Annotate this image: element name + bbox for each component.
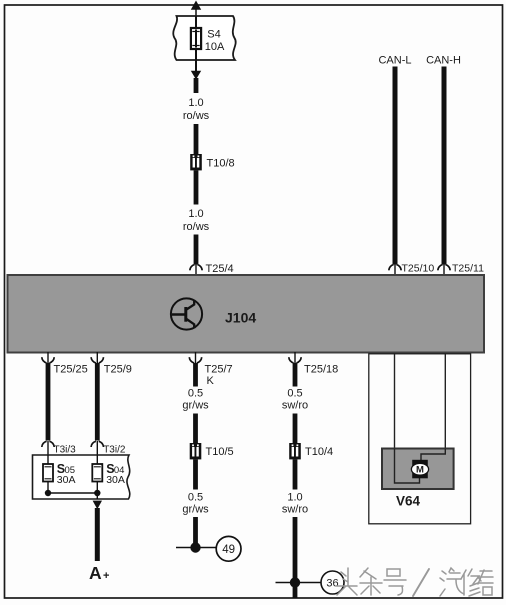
svg-text:36: 36 bbox=[326, 578, 338, 590]
svg-text:T25/7: T25/7 bbox=[205, 364, 233, 376]
svg-text:T25/25: T25/25 bbox=[54, 364, 88, 376]
svg-text:T10/5: T10/5 bbox=[206, 446, 234, 458]
svg-text:gr/ws: gr/ws bbox=[182, 504, 209, 516]
svg-text:1.0: 1.0 bbox=[287, 492, 302, 504]
svg-text:sw/ro: sw/ro bbox=[282, 504, 308, 516]
svg-text:T25/11: T25/11 bbox=[452, 263, 484, 275]
svg-text:1.0: 1.0 bbox=[188, 208, 203, 220]
svg-text:T25/9: T25/9 bbox=[104, 364, 132, 376]
svg-text:0.5: 0.5 bbox=[287, 388, 302, 400]
svg-text:T3i/2: T3i/2 bbox=[103, 445, 126, 456]
svg-text:49: 49 bbox=[222, 544, 235, 556]
svg-text:T25/10: T25/10 bbox=[402, 263, 435, 275]
svg-text:V64: V64 bbox=[396, 494, 421, 509]
svg-text:gr/ws: gr/ws bbox=[182, 400, 209, 412]
svg-text:0.5: 0.5 bbox=[188, 492, 203, 504]
svg-text:30A: 30A bbox=[57, 474, 76, 486]
svg-text:M: M bbox=[416, 465, 424, 476]
svg-text:S4: S4 bbox=[207, 29, 220, 41]
svg-text:T25/18: T25/18 bbox=[304, 364, 338, 376]
svg-text:sw/ro: sw/ro bbox=[282, 400, 308, 412]
svg-text:ro/ws: ro/ws bbox=[183, 110, 210, 122]
svg-text:K: K bbox=[207, 375, 215, 387]
svg-text:CAN-H: CAN-H bbox=[426, 55, 461, 67]
svg-text:T10/4: T10/4 bbox=[305, 446, 333, 458]
svg-text:T3i/3: T3i/3 bbox=[54, 445, 77, 456]
svg-text:1.0: 1.0 bbox=[188, 97, 203, 109]
svg-text:10A: 10A bbox=[205, 41, 225, 53]
svg-text:ro/ws: ro/ws bbox=[183, 221, 210, 233]
svg-text:J104: J104 bbox=[225, 310, 256, 326]
svg-text:0.5: 0.5 bbox=[188, 388, 203, 400]
svg-text:30A: 30A bbox=[106, 474, 125, 486]
svg-text:+: + bbox=[103, 570, 109, 582]
svg-text:CAN-L: CAN-L bbox=[378, 55, 411, 67]
svg-text:T25/4: T25/4 bbox=[206, 263, 234, 275]
svg-text:T10/8: T10/8 bbox=[207, 158, 235, 170]
svg-text:A: A bbox=[89, 563, 102, 583]
